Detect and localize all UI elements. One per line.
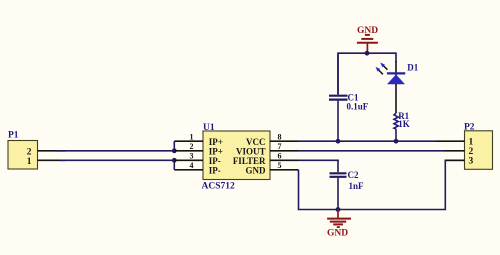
U1 pin 4 bbox=[174, 169, 203, 171]
junction VCC / C1 bbox=[336, 139, 341, 144]
wire top rail bbox=[338, 53, 396, 94]
junction GND rail / C2 bbox=[336, 207, 341, 212]
wire vertical pin1-pin2 branch bbox=[173, 141, 175, 151]
U1 pin 5 bbox=[270, 169, 299, 171]
svg-text:1: 1 bbox=[469, 137, 474, 147]
capacitor C1 bbox=[329, 53, 369, 141]
ground (bottom) bbox=[327, 210, 351, 239]
U1 pin 7 bbox=[270, 150, 299, 152]
P1 pin 2 stub bbox=[38, 150, 66, 152]
svg-text:2: 2 bbox=[190, 142, 194, 151]
junction VCC / R1 bbox=[394, 139, 399, 144]
wire FILTER net pin6 to C2 bbox=[299, 159, 339, 161]
svg-text:VCC: VCC bbox=[246, 137, 266, 147]
connector P2 bbox=[464, 122, 493, 169]
U1 pin 2 bbox=[174, 150, 203, 152]
wire P1.1 to U1 IP- pair bbox=[60, 159, 174, 161]
U1 pin 3 bbox=[174, 159, 203, 161]
svg-text:8: 8 bbox=[278, 133, 282, 142]
U1 pin 6 bbox=[270, 159, 299, 161]
LED D1 bbox=[376, 61, 419, 113]
P2 pin 1 stub bbox=[436, 140, 465, 142]
svg-text:4: 4 bbox=[190, 161, 194, 170]
svg-text:1K: 1K bbox=[398, 119, 410, 129]
wire GND net: down from pin 5 bbox=[299, 160, 465, 209]
light arrows bbox=[383, 66, 387, 70]
P1 pin 1 stub bbox=[38, 159, 66, 161]
resistor R1 bbox=[394, 111, 410, 141]
svg-text:GND: GND bbox=[327, 228, 348, 238]
wire P1.2 to U1 IP+ pair bbox=[56, 150, 174, 152]
svg-text:U1: U1 bbox=[203, 123, 215, 133]
svg-text:2: 2 bbox=[27, 147, 32, 157]
svg-text:0.1uF: 0.1uF bbox=[347, 102, 369, 112]
ground (top, flipped) bbox=[357, 26, 378, 53]
junction top rail / GND bbox=[365, 51, 370, 56]
svg-text:ACS712: ACS712 bbox=[202, 182, 236, 192]
svg-text:1: 1 bbox=[190, 133, 194, 142]
svg-text:5: 5 bbox=[278, 161, 282, 170]
U1 pin 8 bbox=[270, 140, 299, 142]
svg-text:2: 2 bbox=[469, 147, 474, 157]
connector P1 bbox=[8, 130, 38, 169]
P2 pin 3 stub bbox=[446, 159, 465, 161]
wire VCC net pin8 to P2 pin1 bbox=[299, 140, 437, 142]
svg-text:6: 6 bbox=[278, 152, 282, 161]
svg-text:D1: D1 bbox=[407, 62, 418, 72]
svg-text:7: 7 bbox=[278, 142, 282, 151]
capacitor C2 bbox=[330, 160, 365, 209]
U1 pin 1 bbox=[174, 140, 203, 142]
op-amp U1 body bbox=[202, 123, 271, 192]
svg-text:3: 3 bbox=[190, 152, 194, 161]
P2 pin 2 stub bbox=[444, 150, 465, 152]
svg-text:C2: C2 bbox=[348, 170, 359, 180]
svg-text:IP+: IP+ bbox=[209, 147, 223, 157]
svg-text:P2: P2 bbox=[464, 122, 475, 132]
svg-text:IP-: IP- bbox=[209, 166, 221, 176]
svg-text:P1: P1 bbox=[8, 130, 19, 140]
wire VIOUT net pin7 to P2 pin2 bbox=[299, 150, 445, 152]
svg-text:1nF: 1nF bbox=[349, 181, 365, 191]
junction at IP- branch bbox=[172, 158, 177, 163]
junction at IP+ branch bbox=[172, 148, 177, 153]
svg-text:3: 3 bbox=[469, 157, 474, 167]
wire vertical pin3-pin4 branch bbox=[173, 160, 175, 170]
svg-text:GND: GND bbox=[246, 166, 267, 176]
svg-text:1: 1 bbox=[27, 157, 32, 167]
svg-text:VIOUT: VIOUT bbox=[236, 147, 266, 157]
svg-text:IP+: IP+ bbox=[209, 137, 223, 147]
